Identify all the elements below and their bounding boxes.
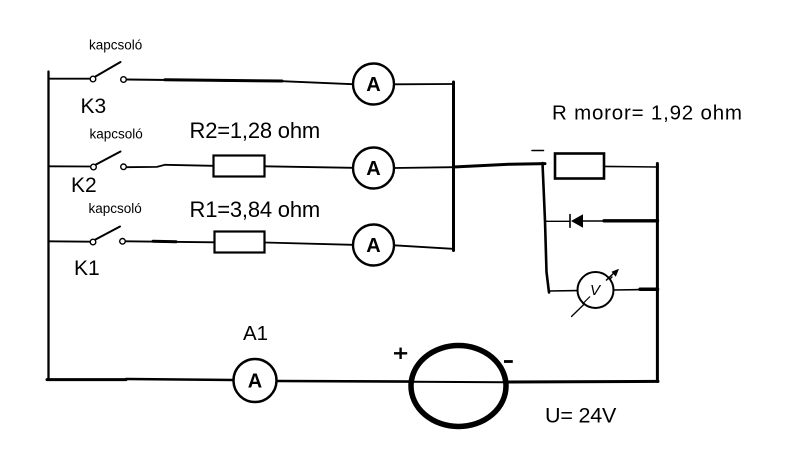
svg-text:K2: K2: [71, 174, 97, 197]
svg-text:R1=3,84 ohm: R1=3,84 ohm: [190, 197, 321, 222]
svg-text:A: A: [248, 371, 262, 393]
svg-text:kapcsoló: kapcsoló: [90, 127, 143, 142]
svg-text:kapcsoló: kapcsoló: [89, 38, 142, 53]
svg-text:A1: A1: [243, 322, 268, 345]
svg-text:kapcsoló: kapcsoló: [89, 201, 142, 216]
svg-text:A: A: [366, 74, 380, 96]
svg-text:U= 24V: U= 24V: [545, 404, 617, 428]
svg-text:R moror= 1,92 ohm: R moror= 1,92 ohm: [552, 102, 743, 125]
svg-text:A: A: [366, 158, 380, 180]
svg-text:K1: K1: [74, 257, 100, 280]
svg-text:K3: K3: [81, 95, 107, 118]
svg-text:A: A: [366, 235, 380, 257]
svg-text:R2=1,28 ohm: R2=1,28 ohm: [190, 118, 321, 143]
